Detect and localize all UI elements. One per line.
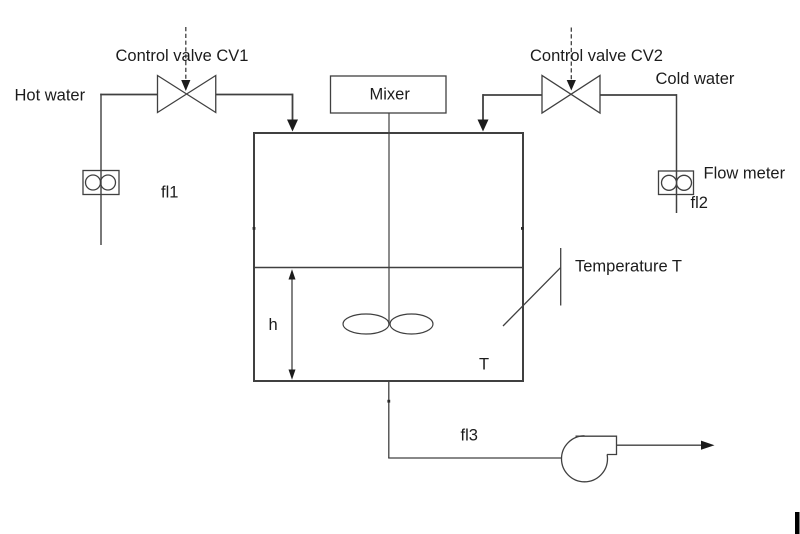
svg-text:Cold water: Cold water: [656, 70, 735, 88]
svg-text:fl3: fl3: [461, 427, 478, 445]
svg-text:h: h: [269, 316, 278, 334]
svg-text:fl2: fl2: [691, 194, 708, 212]
svg-text:T: T: [479, 356, 489, 374]
svg-text:Mixer: Mixer: [370, 86, 411, 104]
svg-text:Flow meter: Flow meter: [704, 165, 786, 183]
svg-text:Temperature T: Temperature T: [575, 258, 682, 276]
svg-text:fl1: fl1: [161, 184, 178, 202]
svg-text:Control valve CV1: Control valve CV1: [116, 47, 249, 65]
svg-text:Control valve CV2: Control valve CV2: [530, 47, 663, 65]
svg-text:Hot water: Hot water: [15, 87, 86, 105]
